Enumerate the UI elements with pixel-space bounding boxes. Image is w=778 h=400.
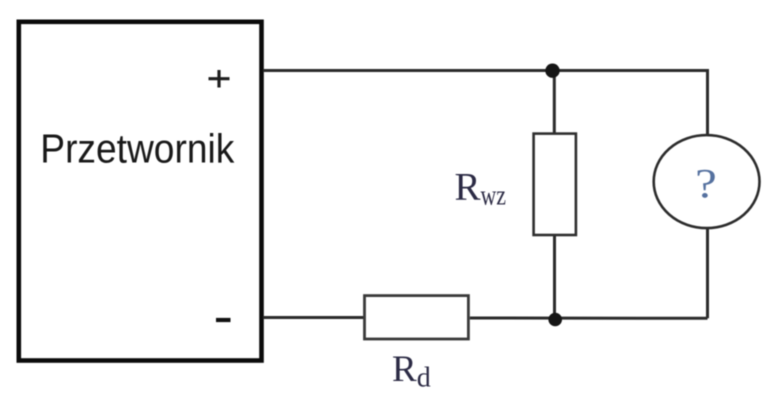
- svg-text:Rd: Rd: [392, 349, 431, 394]
- resistor Rd body: [365, 296, 469, 339]
- meter circle: [654, 135, 760, 228]
- junction node bottom: [548, 313, 562, 327]
- wire: Rwz top lead: [553, 71, 556, 134]
- minus terminal: [216, 318, 231, 322]
- svg-text:?: ?: [695, 160, 717, 206]
- wire top: box plus to right corner, down to meter: [263, 71, 708, 136]
- wire: Rwz bottom lead: [553, 235, 556, 318]
- junction node top: [545, 63, 559, 77]
- wire: right vertical, meter bottom to bottom-right corner: [706, 228, 709, 318]
- meter label ?: [695, 160, 717, 206]
- converter box Przetwornik: [19, 22, 262, 361]
- resistor Rwz body: [534, 134, 576, 235]
- svg-text:Przetwornik: Przetwornik: [40, 126, 235, 172]
- wire bottom left: Rd left to box minus: [263, 316, 365, 319]
- plus terminal: [209, 70, 230, 88]
- svg-text:Rwz: Rwz: [455, 166, 507, 212]
- wire bottom right: corner to Rwz junction to Rd right: [470, 317, 708, 320]
